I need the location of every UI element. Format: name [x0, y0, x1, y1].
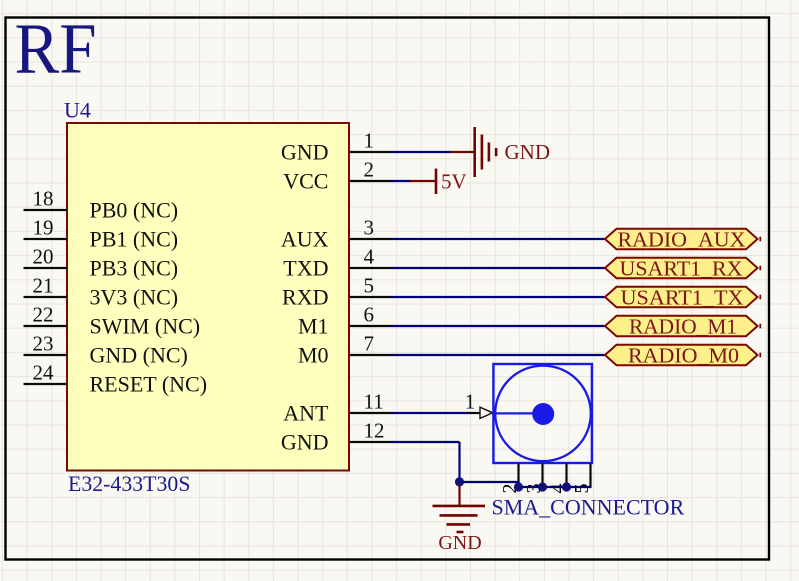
wire node A vertical — [458, 442, 460, 483]
svg-text:RADIO_AUX: RADIO_AUX — [618, 228, 746, 252]
wire pin5 — [392, 296, 605, 298]
pin 7 M0 — [298, 332, 392, 368]
svg-text:22: 22 — [33, 303, 54, 327]
svg-text:21: 21 — [33, 274, 54, 298]
svg-text:24: 24 — [33, 361, 55, 385]
ground symbol (earth) — [433, 484, 486, 554]
wire pin6 — [392, 325, 605, 327]
svg-text:RF: RF — [15, 10, 97, 89]
svg-text:4: 4 — [364, 245, 375, 269]
SMA pin 3 — [523, 464, 545, 494]
svg-text:5: 5 — [571, 484, 593, 494]
svg-text:5: 5 — [364, 274, 375, 298]
wire pin4 — [392, 267, 605, 269]
wire pin11 ANT to SMA — [392, 412, 469, 414]
svg-text:PB3 (NC): PB3 (NC) — [90, 255, 179, 280]
SMA pin 1 lead — [467, 412, 480, 414]
port RADIO_AUX — [605, 228, 760, 252]
SMA pin 1 input arrow — [480, 407, 493, 418]
port RADIO_M1 — [605, 315, 760, 339]
svg-text:TXD: TXD — [283, 255, 328, 280]
SMA pin 4 — [547, 464, 569, 494]
svg-text:VCC: VCC — [283, 168, 328, 193]
pin 11 ANT — [283, 390, 392, 426]
SMA pin 2 — [499, 464, 521, 494]
svg-text:2: 2 — [364, 158, 375, 182]
IC U4 body — [67, 123, 349, 471]
svg-text:11: 11 — [364, 390, 384, 414]
power port GND (top) — [450, 127, 551, 177]
junction SMA pin 3 — [538, 482, 547, 491]
svg-text:RXD: RXD — [282, 284, 328, 309]
svg-text:USART1_TX: USART1_TX — [621, 286, 744, 310]
svg-text:GND: GND — [281, 429, 329, 454]
svg-text:19: 19 — [33, 216, 54, 240]
pin 19 PB1 — [24, 216, 179, 252]
junction SMA pin 4 — [562, 482, 571, 491]
svg-text:RESET (NC): RESET (NC) — [90, 371, 208, 396]
pin 20 PB3 — [24, 245, 179, 281]
wire node A to SMA pin 2 — [460, 481, 520, 483]
svg-text:PB0 (NC): PB0 (NC) — [90, 197, 179, 222]
svg-text:7: 7 — [364, 332, 375, 356]
pin 6 M1 — [298, 303, 392, 339]
svg-text:M0: M0 — [298, 342, 329, 367]
port RADIO_M0 — [605, 344, 760, 368]
pin 12 GND — [281, 419, 392, 455]
pin 3 AUX — [281, 216, 392, 252]
svg-text:1: 1 — [364, 129, 375, 153]
svg-text:SMA_CONNECTOR: SMA_CONNECTOR — [492, 495, 685, 520]
svg-text:SWIM (NC): SWIM (NC) — [90, 313, 201, 338]
pin 22 SWIM — [24, 303, 201, 339]
svg-text:5V: 5V — [441, 170, 467, 194]
svg-text:3: 3 — [364, 216, 375, 240]
svg-text:3V3 (NC): 3V3 (NC) — [90, 284, 179, 309]
port USART1_RX — [605, 257, 760, 281]
svg-text:USART1_RX: USART1_RX — [620, 257, 743, 281]
svg-text:23: 23 — [33, 332, 54, 356]
svg-text:AUX: AUX — [281, 226, 329, 251]
svg-text:U4: U4 — [64, 98, 91, 123]
pin 21 3V3 — [24, 274, 179, 310]
power port 5V — [410, 169, 467, 194]
wire pin2 to 5V power — [392, 180, 411, 182]
pin 5 RXD — [282, 274, 392, 310]
svg-text:20: 20 — [33, 245, 54, 269]
svg-text:GND (NC): GND (NC) — [90, 342, 188, 367]
pin 1 GND — [281, 129, 392, 165]
svg-text:12: 12 — [364, 419, 385, 443]
svg-text:RADIO_M1: RADIO_M1 — [629, 315, 737, 339]
wire pin1 to GND power — [392, 151, 450, 153]
pin 4 TXD — [283, 245, 392, 281]
SMA pin 5 — [571, 464, 593, 494]
junction node A — [455, 477, 464, 486]
wire pin 12 to node A — [392, 441, 460, 443]
svg-text:GND: GND — [438, 532, 481, 554]
wire jog at SMA pin 2 — [517, 482, 519, 487]
pin 2 VCC — [283, 158, 392, 194]
wire ground bus SMA pins 2-5 — [519, 486, 592, 488]
svg-text:1: 1 — [465, 390, 476, 414]
pin 23 GND — [24, 332, 188, 368]
svg-text:ANT: ANT — [283, 400, 329, 425]
svg-text:PB1 (NC): PB1 (NC) — [90, 226, 179, 251]
svg-text:GND: GND — [281, 139, 329, 164]
pin 18 PB0 — [24, 187, 179, 223]
svg-text:RADIO_M0: RADIO_M0 — [628, 344, 739, 368]
port USART1_TX — [605, 286, 760, 310]
svg-text:M1: M1 — [298, 313, 329, 338]
SMA connector symbol — [493, 364, 592, 463]
svg-text:GND: GND — [505, 140, 551, 164]
svg-text:E32-433T30S: E32-433T30S — [68, 471, 191, 496]
wire pin3 — [392, 238, 605, 240]
junction SMA pin 2 — [514, 482, 523, 491]
svg-text:18: 18 — [33, 187, 54, 211]
svg-text:6: 6 — [364, 303, 375, 327]
wire pin7 — [392, 354, 605, 356]
pin 24 RESET — [24, 361, 208, 397]
